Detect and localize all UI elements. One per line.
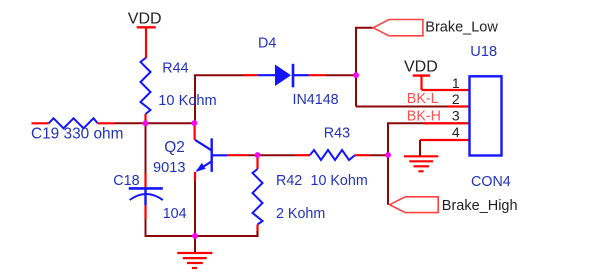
svg-text:C19 330 ohm: C19 330 ohm bbox=[31, 126, 123, 143]
wire pin2 U18 (BK-L) bbox=[356, 106, 448, 108]
pin lead pin3 bbox=[423, 122, 470, 124]
wire bottom rail bbox=[145, 235, 258, 237]
power VDD symbol (top left) bbox=[137, 27, 156, 58]
wire C18 to bottom rail bbox=[145, 219, 147, 237]
wire vertical x=356 (Brake_Low riser) bbox=[356, 28, 373, 107]
node junction B bbox=[191, 120, 197, 126]
svg-text:CON4: CON4 bbox=[471, 174, 511, 190]
pin lead R42 top bbox=[256, 155, 258, 169]
svg-text:9013: 9013 bbox=[153, 160, 185, 176]
wire pin3 U18 (BK-H riser to Brake_High) bbox=[388, 123, 470, 204]
node junction E (R42 top) bbox=[255, 152, 261, 158]
pin lead Q2 collector bbox=[194, 123, 196, 140]
ground symbol (bottom) bbox=[177, 253, 212, 268]
svg-text:IN4148: IN4148 bbox=[293, 92, 339, 108]
capacitor C18 bbox=[129, 188, 163, 205]
wire pin4 down to ground bbox=[419, 140, 421, 156]
node junction A bbox=[143, 120, 149, 126]
pin lead C18 bottom bbox=[144, 205, 146, 219]
wire ground stem bbox=[194, 236, 196, 253]
svg-text:2 Kohm: 2 Kohm bbox=[276, 206, 325, 222]
connector U18 body bbox=[470, 76, 502, 155]
wire pin4 U18 bbox=[420, 139, 470, 141]
resistor C19 (horizontal, left) pin lead left bbox=[32, 122, 49, 124]
svg-text:VDD: VDD bbox=[128, 11, 162, 28]
svg-text:D4: D4 bbox=[258, 35, 276, 51]
pin lead pin2 bbox=[448, 105, 470, 107]
diode D4 bbox=[258, 64, 309, 88]
ground symbol (right, near CON4) bbox=[404, 156, 438, 171]
resistor R44 bbox=[141, 58, 151, 114]
power VDD symbol (right) bbox=[413, 76, 430, 90]
port Brake_High bbox=[390, 197, 439, 213]
svg-text:U18: U18 bbox=[470, 44, 497, 60]
pin lead R43 left bbox=[295, 154, 310, 156]
wire horizontal corner to diode bbox=[194, 74, 243, 76]
wire R43 to junction D bbox=[370, 154, 388, 156]
resistor C19 zigzag bbox=[49, 118, 98, 128]
pin lead D4 anode (red) bbox=[243, 74, 258, 76]
svg-text:1: 1 bbox=[452, 75, 460, 91]
wire pin1 U18 bbox=[422, 89, 470, 91]
wire junction A down to C18 bbox=[145, 123, 147, 173]
svg-text:C18: C18 bbox=[113, 173, 139, 189]
wire base Q2 to junction E bbox=[228, 154, 248, 156]
pin lead Q2 emitter down bbox=[194, 172, 196, 181]
svg-text:VDD: VDD bbox=[404, 59, 438, 76]
svg-text:2: 2 bbox=[452, 91, 460, 107]
node junction C bbox=[353, 72, 359, 78]
svg-text:Brake_Low: Brake_Low bbox=[425, 20, 498, 36]
svg-text:BK-H: BK-H bbox=[407, 108, 441, 124]
svg-text:R43: R43 bbox=[324, 126, 350, 142]
wire junction E to R43 bbox=[248, 154, 295, 156]
pin lead C19 right bbox=[98, 122, 115, 124]
pin lead C18 top bbox=[144, 174, 146, 189]
node junction D (R43 right / BK-H riser) bbox=[385, 152, 391, 158]
wire R42 bottom corner bbox=[257, 231, 259, 237]
svg-text:Brake_High: Brake_High bbox=[442, 198, 518, 214]
svg-text:104: 104 bbox=[163, 206, 187, 222]
svg-text:BK-L: BK-L bbox=[407, 91, 439, 107]
port Brake_Low bbox=[373, 20, 423, 36]
wire vertical junction B up to corner bbox=[194, 75, 196, 123]
wire horizontal to junction A bbox=[115, 122, 195, 124]
transistor Q2 bbox=[195, 138, 228, 172]
svg-text:Q2: Q2 bbox=[164, 139, 185, 156]
pin lead D4 cathode (red) bbox=[309, 74, 327, 76]
pin lead R44 bottom bbox=[144, 114, 146, 123]
pin lead R42 bottom bbox=[256, 225, 258, 237]
svg-text:R42: R42 bbox=[276, 173, 302, 189]
resistor R42 bbox=[253, 169, 263, 225]
arrow Q2 emitter bbox=[196, 163, 206, 172]
svg-text:10 Kohm: 10 Kohm bbox=[311, 173, 368, 189]
svg-text:10 Kohm: 10 Kohm bbox=[158, 93, 216, 109]
resistor R43 bbox=[310, 150, 355, 160]
wire Q2 emitter to bottom rail bbox=[194, 181, 196, 236]
wire diode to junction C bbox=[326, 74, 356, 76]
svg-text:R44: R44 bbox=[162, 60, 188, 76]
pin lead R43 right bbox=[355, 154, 370, 156]
svg-text:3: 3 bbox=[452, 108, 460, 124]
svg-text:4: 4 bbox=[452, 124, 460, 140]
node junction F (bottom rail / ground) bbox=[192, 233, 198, 239]
